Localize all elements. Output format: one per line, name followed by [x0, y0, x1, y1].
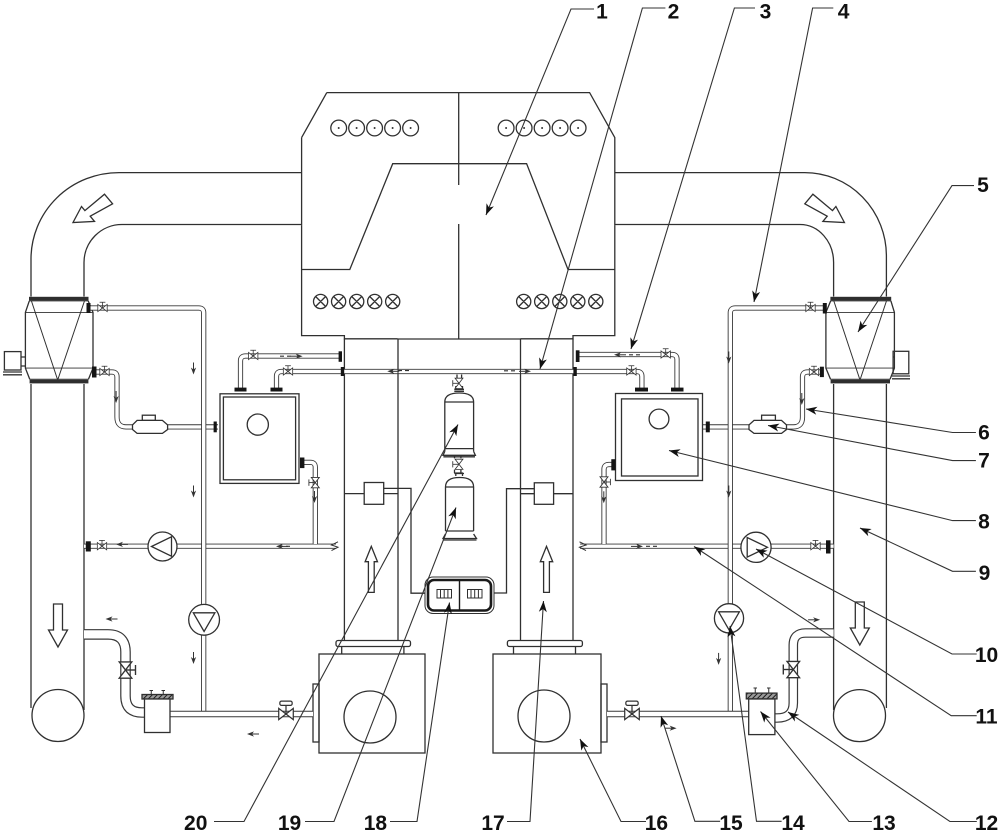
svg-text:10: 10 [975, 644, 998, 667]
svg-text:6: 6 [978, 421, 990, 444]
damper box on right riser [494, 483, 573, 593]
valve: pump discharge right [811, 540, 820, 549]
spray circles row (x type) left [314, 294, 400, 308]
circulation tank 1-left [220, 394, 299, 484]
tiny flow-tag dashes [279, 355, 657, 547]
svg-text:19: 19 [278, 812, 301, 833]
leader 13 [761, 712, 872, 822]
flow arrow: right fan outlet pipe [665, 726, 677, 731]
flange: exchanger pipe at left tank [214, 422, 217, 433]
leader 4 [754, 8, 833, 302]
flow arrow: left bleed pipe down (lower) [191, 486, 196, 498]
left duct lower run [31, 384, 84, 710]
leader 18 [390, 603, 450, 822]
drain pump left (vertical) [189, 604, 220, 635]
center chamber rectangle below tower [398, 338, 521, 340]
pipe: left tank drain to pump line [300, 462, 315, 544]
flange: main line at right riser [573, 367, 576, 376]
flange: main line at left riser [341, 367, 344, 376]
leader 10 [756, 549, 977, 654]
leader 5 [858, 186, 974, 332]
nozzle circles row (dot type) right [498, 120, 586, 136]
flange: pump line at right duct [826, 540, 831, 553]
left duct flow arrow (hollow) [73, 194, 113, 222]
left riser hollow up arrow [365, 546, 377, 592]
flow arrow: right drain pump drop [716, 653, 721, 665]
leader 15 [661, 716, 720, 821]
right duct lower run [834, 384, 887, 710]
center dashed partition line [458, 93, 460, 339]
svg-text:20: 20 [184, 812, 207, 833]
leader 17 [507, 601, 544, 822]
bag filter 5-left (in left duct) [25, 297, 93, 384]
leader 9 [860, 528, 976, 571]
flow arrow: upper line left [291, 354, 303, 359]
leader 3 [631, 8, 755, 349]
right duct flow arrow (hollow) [805, 194, 845, 222]
flow arrow: left tank drain [312, 491, 317, 503]
svg-text:14: 14 [781, 812, 805, 833]
svg-text:4: 4 [838, 0, 850, 23]
spray tower main body (top vessel) [302, 93, 615, 339]
pipe: right dosing tank riser back to duct [775, 633, 834, 718]
pipe: pump suction line right (riser to duct) [580, 544, 834, 549]
pipe: right filter bottom to heat exchanger to tank [703, 424, 750, 429]
flange: right tank drain [611, 459, 615, 470]
right riser hollow up arrow [540, 546, 552, 592]
flow arrow: left bleed pipe down (upper) [191, 363, 196, 375]
flow arrow: right exchanger drop [799, 393, 804, 405]
valve: left filter top bleed [98, 302, 107, 311]
flow arrow: right bleed pipe down (lower) [726, 486, 731, 498]
flange: pump line at left duct [86, 541, 91, 551]
damper box on left riser [344, 483, 425, 594]
filter motor (left) [3, 352, 26, 375]
svg-text:16: 16 [645, 812, 668, 833]
valve: dosing cylinder top [453, 378, 463, 388]
pipe: pump suction line left (duct to riser) [84, 544, 336, 549]
pipe: dosing tank to left fan inlet [170, 711, 313, 718]
flange: right filter top bleed [823, 303, 827, 314]
pipe: left filter top bleed down to pump 19 [91, 308, 204, 714]
svg-text:13: 13 [872, 812, 895, 833]
flow arrow: upper line right [614, 352, 626, 357]
leader 11 [694, 547, 977, 716]
filter motor (right) [892, 351, 910, 379]
pipe: left filter bottom to heat exchanger to tank [97, 372, 134, 427]
pipe: right fan outlet to dosing tank [607, 711, 749, 718]
right fan inlet flanges [507, 641, 582, 655]
left fan riser duct walls [344, 339, 398, 643]
valve: right fan outlet [625, 701, 640, 719]
leader 2 [540, 8, 665, 369]
flow arrow: right tank drain [601, 491, 606, 503]
valve: left fan inlet [279, 701, 294, 719]
pipe: right tank drain to pump line [604, 465, 616, 545]
dosing tank left [142, 691, 173, 733]
valve: right tank nozzle L main line [627, 366, 636, 375]
pipe: left tank left nozzle to left riser (upper line) [241, 356, 341, 391]
pipe: right tank right nozzle to right riser (upper line) [578, 355, 678, 392]
leader 6 [806, 409, 976, 433]
leader 14 [730, 626, 782, 821]
left fan inlet flanges [336, 641, 411, 655]
left duct hollow down arrow [49, 604, 68, 647]
valve: left tank nozzle R main line [283, 366, 292, 375]
riser inner walls crossing main pipe [398, 367, 521, 375]
pipe break marks [332, 542, 339, 551]
svg-text:15: 15 [719, 812, 743, 833]
svg-text:7: 7 [978, 450, 990, 473]
spray circles row (x type) right [517, 294, 603, 308]
leader 16 [580, 739, 646, 822]
heat exchanger 7-right [749, 415, 787, 433]
right fan riser duct walls [521, 339, 574, 643]
leader arrowheads [482, 203, 494, 216]
valve: pump suction left [97, 540, 106, 549]
valve: left tank drain [309, 477, 319, 487]
flow arrow: pump inlet left [116, 542, 128, 547]
flow arrow: left drain pump drop [191, 652, 196, 664]
flange: left filter top bleed [87, 303, 91, 313]
valve: right tank drain [600, 477, 610, 487]
svg-text:8: 8 [978, 510, 990, 533]
inner baffle trapezoid [302, 164, 615, 270]
valve: right filter top bleed [806, 302, 815, 311]
induced draft fan 20-left box [313, 654, 425, 753]
valve: right tank nozzle R line [661, 349, 670, 358]
svg-text:18: 18 [364, 812, 388, 833]
valve: left filter bottom outlet [100, 366, 109, 375]
flow arrow: right dosing return [808, 617, 820, 622]
left recirculation duct (elbow) [31, 173, 302, 297]
flow arrow: left exchanger drop [114, 391, 119, 403]
right duct bottom drum circle [834, 690, 886, 742]
flange: left tank drain [300, 458, 304, 469]
dosing tank 13-right [746, 688, 777, 735]
heat exchanger 7-left [133, 415, 168, 433]
flange: upper line at right riser [576, 350, 580, 362]
flange: left filter bottom outlet [92, 367, 97, 378]
left duct bottom drum circle [32, 690, 84, 742]
flow arrow: below dosing outlet left [247, 731, 259, 736]
pipe: right filter top bleed down to pump 11 [730, 308, 826, 714]
flange: left tank nozzle L [235, 388, 247, 392]
flange: right exchanger riser at filter [820, 367, 824, 377]
valve: between dosing cylinders [453, 459, 463, 469]
valve: right exchanger riser [809, 366, 818, 375]
svg-text:12: 12 [975, 812, 998, 833]
leader 7 [768, 426, 976, 461]
pipe: main spray header line (left tank to right tank) [277, 372, 642, 392]
circulating pump 10-right (horizontal) [741, 532, 771, 562]
flange: right tank nozzle R [671, 388, 684, 392]
flow arrow: pump line left [276, 544, 288, 549]
svg-text:9: 9 [979, 562, 991, 585]
svg-text:2: 2 [668, 0, 680, 23]
right recirculation duct (elbow) [615, 173, 887, 297]
valve: right dosing riser [783, 661, 799, 677]
dosing cylinder 19 (lower) [443, 455, 477, 540]
valve: left duct bottom branch [119, 662, 135, 678]
flange: exchanger pipe at right tank [706, 422, 710, 433]
pipe: left duct bottom branch to dosing tank [84, 634, 145, 712]
flange: right tank nozzle L [635, 388, 648, 392]
svg-text:1: 1 [596, 0, 608, 23]
leader 19 [305, 508, 456, 822]
flow arrow: right bleed pipe down (upper) [726, 352, 731, 364]
flow arrow: main line left [387, 369, 399, 374]
leader 8 [669, 451, 976, 521]
leader 1 [486, 9, 594, 215]
svg-text:3: 3 [760, 0, 772, 23]
valve: left tank nozzle L line [249, 350, 258, 359]
flow arrow: duct branch left [106, 616, 118, 621]
leader 12 [788, 712, 977, 822]
flow arrow: pump line right [631, 544, 643, 549]
svg-text:5: 5 [977, 174, 989, 197]
svg-text:11: 11 [975, 706, 998, 729]
circulating pump left (horizontal) [148, 532, 177, 561]
flange: upper line at left riser [339, 351, 342, 362]
bag filter 5-right (in right duct) [826, 297, 895, 384]
svg-text:17: 17 [481, 812, 504, 833]
right duct hollow down arrow [850, 602, 869, 645]
nozzle circles row (dot type) left [331, 120, 419, 136]
drain pump 11-right (vertical) [714, 604, 743, 633]
flange: left tank nozzle R [271, 388, 283, 392]
flow arrow: main line right [519, 369, 531, 374]
control panel 18 [425, 577, 494, 614]
leader 20 [214, 425, 458, 822]
circulation tank 8-right [616, 394, 703, 481]
induced draft fan 16-right box [493, 654, 607, 753]
dosing cylinder 20 (upper) [443, 375, 475, 457]
